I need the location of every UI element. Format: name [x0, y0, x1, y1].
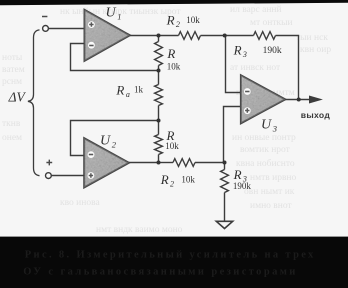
junction U1 feedback node	[157, 69, 161, 73]
resistor R 10k lower vertical	[155, 135, 163, 155]
svg-text:1k: 1k	[134, 85, 144, 95]
wire: U1 output	[130, 35, 159, 37]
svg-text:3: 3	[272, 124, 277, 134]
junction output node	[297, 98, 301, 102]
svg-text:190k: 190k	[263, 46, 282, 56]
wire: R2 bottom right to node E	[195, 162, 225, 164]
svg-text:вомтик нрот: вомтик нрот	[240, 145, 291, 155]
svg-text:нмтв ирвно: нмтв ирвно	[250, 173, 297, 183]
U1 - marker	[88, 42, 95, 49]
wire: node C down	[158, 121, 160, 135]
U2 - marker	[88, 151, 95, 158]
wire: R2 right to node B	[201, 35, 254, 37]
junction node E	[223, 161, 227, 165]
resistor R2 top 10k	[179, 32, 201, 40]
svg-text:квна нобиснто: квна нобиснто	[236, 158, 295, 169]
svg-text:R: R	[233, 167, 242, 182]
svg-text:10k: 10k	[165, 141, 179, 151]
U3 + marker	[244, 107, 251, 114]
svg-text:ил варс аннй: ил варс аннй	[230, 4, 282, 15]
svg-text:ΔV: ΔV	[8, 89, 27, 104]
wire: U3 output to arrow	[285, 99, 310, 101]
svg-text:2: 2	[170, 180, 174, 189]
svg-text:выход: выход	[301, 110, 331, 120]
resistor R3 vertical 190k	[221, 170, 229, 193]
svg-text:10k: 10k	[167, 62, 181, 72]
label + (bottom terminal polarity)	[46, 160, 52, 166]
svg-text:онем: онем	[2, 133, 22, 143]
svg-text:рснм: рснм	[2, 77, 22, 87]
faint bleed-through text rows	[2, 4, 331, 235]
op-amp U1	[85, 10, 130, 61]
wire: node E down to R3v	[224, 163, 226, 170]
wire: node A to R2 left	[159, 35, 179, 37]
wire: between R and Ra	[158, 66, 160, 85]
top black bar	[0, 0, 348, 5]
junction node D	[157, 161, 161, 165]
wire: R3h right + down to output node	[276, 36, 299, 100]
svg-text:U: U	[100, 134, 111, 149]
svg-text:имно внот: имно внот	[250, 201, 292, 211]
svg-text:U: U	[106, 5, 117, 20]
svg-text:овн нымт ик: овн нымт ик	[244, 187, 295, 197]
svg-text:R: R	[166, 12, 175, 27]
svg-text:ОУ с гальваносвязанными резист: ОУ с гальваносвязанными резисторами	[23, 267, 297, 278]
svg-text:10k: 10k	[181, 175, 195, 185]
svg-text:190k: 190k	[233, 181, 252, 191]
svg-text:1: 1	[117, 11, 121, 21]
junction node A	[157, 34, 161, 38]
wire: node D to R2 bottom	[159, 162, 174, 164]
U1 + marker	[88, 21, 95, 28]
svg-text:ат инвск нот: ат инвск нот	[230, 63, 281, 73]
svg-text:тыи нск: тыи нск	[296, 33, 328, 43]
resistor Ra 1k	[155, 85, 163, 106]
svg-text:3: 3	[242, 50, 247, 59]
wire: feeder node E up to U3 + input	[224, 107, 241, 163]
input terminal plus	[46, 173, 52, 179]
op-amp U2	[84, 138, 129, 187]
svg-text:R: R	[166, 46, 175, 61]
op-amp U3	[241, 75, 285, 123]
wire: U2 output	[129, 162, 159, 164]
svg-text:ткнв: ткнв	[2, 119, 21, 129]
U3 - marker	[244, 88, 251, 95]
U2 + marker	[88, 172, 95, 179]
wire: feeder node B down to U3 inverting input	[226, 36, 241, 93]
svg-text:Рис. 8. Измерительный усилител: Рис. 8. Измерительный усилитель на трех	[25, 250, 316, 261]
input terminal minus	[43, 26, 49, 32]
resistor R3 horizontal 190k	[254, 32, 276, 40]
svg-text:кво инова: кво инова	[60, 198, 100, 208]
resistor R 10k upper vertical	[155, 42, 163, 66]
svg-text:a: a	[126, 90, 130, 99]
svg-text:квн оир: квн оир	[300, 45, 331, 55]
wire: R3v to ground	[224, 193, 226, 222]
wire: U1 feedback from node to inverting input	[71, 44, 159, 71]
svg-text:2: 2	[176, 20, 180, 29]
svg-text:R: R	[160, 172, 169, 187]
label - (top terminal polarity)	[42, 16, 47, 18]
bottom black caption area	[0, 237, 348, 288]
svg-text:2: 2	[112, 140, 117, 150]
wire: R lower to U2 output node	[158, 155, 160, 163]
wire: Ra bottom to node C	[158, 106, 160, 121]
wire: terminal to U2 + input	[51, 175, 84, 177]
junction node C	[157, 119, 161, 123]
svg-text:10k: 10k	[186, 15, 200, 25]
svg-text:R: R	[115, 82, 124, 97]
svg-text:мт онткыи: мт онткыи	[250, 18, 293, 28]
svg-text:нмт вндк ваимо моно: нмт вндк ваимо моно	[96, 225, 183, 235]
wire: mid column node A down	[158, 36, 160, 42]
brace delta-V	[28, 30, 40, 176]
svg-text:R: R	[233, 43, 242, 58]
junction node B	[223, 34, 227, 38]
ground	[216, 221, 232, 228]
wire: U1 + input from terminal	[48, 28, 84, 30]
resistor R2 bottom 10k	[173, 159, 195, 167]
svg-text:U: U	[261, 118, 272, 133]
output arrowhead	[309, 96, 323, 104]
svg-text:ноты: ноты	[2, 53, 23, 63]
svg-text:ин онвые понтр: ин онвые понтр	[232, 133, 296, 143]
wire: U2 feedback from node C to inverting input	[71, 121, 159, 156]
svg-text:ватем: ватем	[2, 65, 25, 75]
